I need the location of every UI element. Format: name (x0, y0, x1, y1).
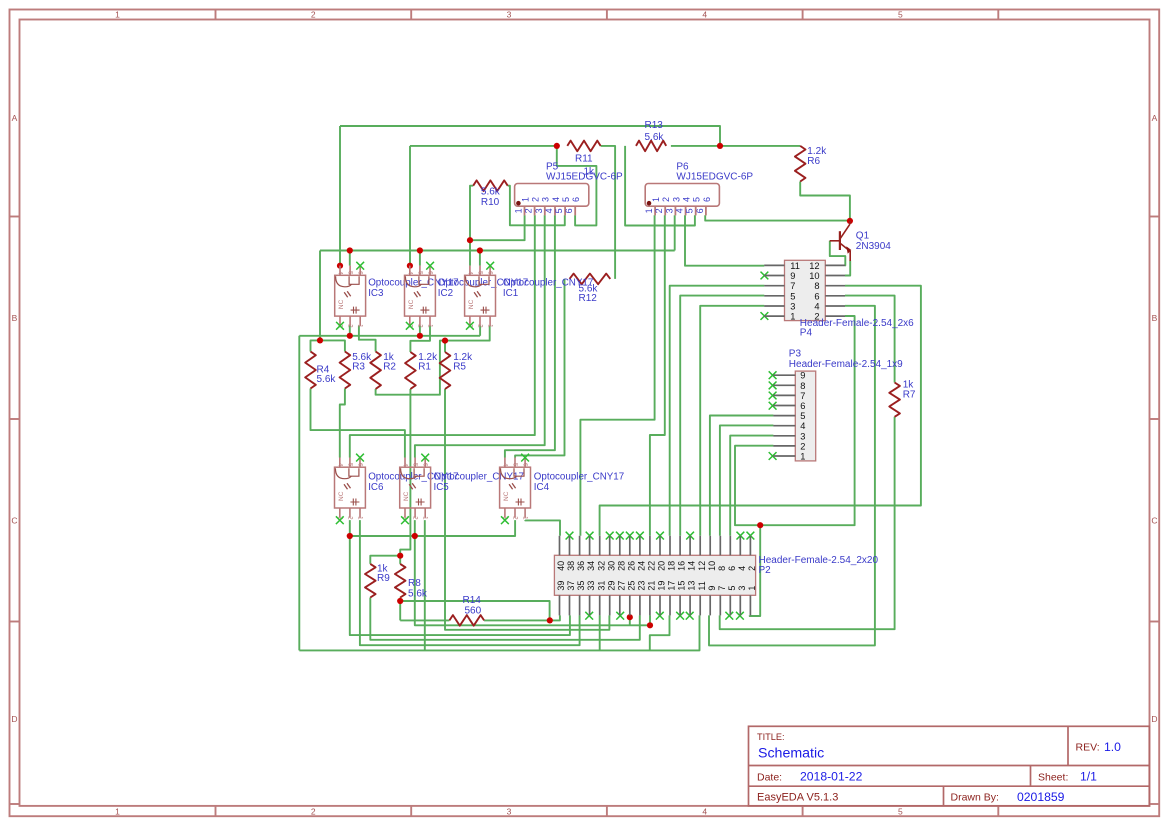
ruler ticks bottom (215, 806, 217, 816)
svg-text:IC6: IC6 (368, 482, 384, 493)
svg-text:2: 2 (747, 566, 757, 571)
svg-text:6: 6 (571, 197, 581, 202)
wire R6 bottom to Q1 collector (800, 182, 850, 221)
svg-text:TITLE:: TITLE: (757, 732, 785, 742)
wire R3 bottom to IC6 pin4 (340, 389, 345, 458)
wire R11 right lead down to R12 (601, 146, 616, 279)
nc P2 top pin30 (606, 532, 614, 540)
svg-text:37: 37 (566, 581, 576, 591)
svg-text:C: C (1151, 516, 1157, 526)
wire P4 pin7 to P2 pin18 (670, 286, 765, 536)
svg-text:5: 5 (898, 806, 903, 816)
wire IC2 pin1 to R1 (410, 326, 430, 353)
header P4 2x6 (764, 260, 845, 321)
resistor R7 (889, 379, 916, 417)
svg-text:Drawn By:: Drawn By: (951, 792, 999, 804)
svg-text:2: 2 (311, 806, 316, 816)
svg-text:1.0: 1.0 (1104, 740, 1121, 754)
resistor R12 (570, 274, 611, 305)
wire P4 pin6 to R7 top (845, 296, 895, 383)
svg-text:Optocoupler_CNY17: Optocoupler_CNY17 (434, 471, 524, 482)
junction IC2 pin2 (417, 333, 423, 339)
svg-text:Header-Female-2.54_2x20: Header-Female-2.54_2x20 (759, 555, 879, 566)
wire P2 pin39 riser (550, 615, 560, 620)
svg-text:4: 4 (800, 421, 805, 431)
svg-text:5: 5 (554, 208, 564, 213)
svg-text:9: 9 (707, 586, 717, 591)
svg-text:R13: R13 (645, 120, 664, 131)
svg-text:39: 39 (556, 581, 566, 591)
resistor R1 (405, 352, 438, 389)
svg-text:R14: R14 (463, 595, 482, 606)
resistor R2 (370, 352, 396, 390)
nc P2 bottom pin27 (616, 612, 624, 620)
junction P5pin1 R10 node (467, 237, 473, 243)
svg-text:D: D (11, 714, 17, 724)
nc P2 bottom pin5 (725, 612, 733, 620)
nc P3 pin8 (769, 382, 777, 390)
wire R8 bottom to R14 (399, 598, 401, 621)
wire R4 R3 top (311, 340, 345, 351)
svg-text:2: 2 (800, 441, 805, 451)
svg-text:11: 11 (697, 581, 707, 590)
svg-text:0201859: 0201859 (1017, 790, 1065, 804)
svg-text:20: 20 (657, 561, 667, 571)
wire net1 top horizontal (340, 126, 720, 146)
svg-text:38: 38 (566, 561, 576, 571)
svg-text:R12: R12 (579, 293, 598, 304)
svg-text:2: 2 (661, 197, 671, 202)
svg-text:5.6k: 5.6k (408, 588, 428, 599)
svg-text:32: 32 (596, 561, 606, 571)
svg-text:3: 3 (534, 208, 544, 213)
svg-text:14: 14 (687, 561, 697, 571)
header P3 1x9 (773, 371, 815, 462)
resistor R10 (473, 180, 508, 207)
svg-text:21: 21 (647, 581, 657, 591)
svg-text:16: 16 (677, 561, 687, 571)
svg-text:35: 35 (576, 581, 586, 591)
nc P2 top pin26 (626, 532, 634, 540)
junction R5 top (442, 338, 448, 344)
wire IC5 pin2 chain to P2 pin25 (415, 520, 650, 625)
wire P4 pin5 to P2 pin16 (680, 296, 764, 536)
nc IC4 pin3 (501, 516, 509, 524)
wire IC5 pin5 to P5 pin3 (415, 215, 545, 457)
svg-text:4: 4 (814, 302, 819, 312)
svg-text:3: 3 (800, 431, 805, 441)
junction IC3 pin2 (347, 333, 353, 339)
svg-text:NC: NC (503, 491, 510, 501)
nc IC6 pin3 (336, 516, 344, 524)
nc P2 top pin28 (616, 532, 624, 540)
svg-text:4: 4 (551, 197, 561, 202)
svg-text:12: 12 (809, 261, 819, 271)
svg-text:2: 2 (524, 208, 534, 213)
nc IC3 pin6 (356, 262, 364, 270)
nc P2 top pin2 (747, 532, 755, 540)
svg-text:9: 9 (800, 371, 805, 381)
svg-text:P2: P2 (759, 565, 772, 576)
svg-text:NC: NC (468, 299, 475, 309)
junction Q1 collector node (847, 218, 853, 224)
svg-text:33: 33 (586, 581, 596, 591)
svg-text:5: 5 (898, 10, 903, 20)
wire P3 pin3 to P2 pin6 (730, 436, 773, 536)
svg-text:25: 25 (626, 581, 636, 591)
wire IC6 pin5 to P5 pin2 (350, 215, 535, 457)
svg-text:19: 19 (657, 581, 667, 591)
svg-text:29: 29 (606, 581, 616, 591)
svg-text:IC1: IC1 (503, 288, 518, 299)
svg-text:3: 3 (671, 197, 681, 202)
wire IC3 pin1 to R2 (359, 326, 376, 352)
connector P6 (644, 184, 719, 216)
wire IC1 pin5 riser (479, 251, 481, 266)
wire P6 pin1 to P2 pin36 (580, 215, 654, 536)
svg-text:5: 5 (561, 197, 571, 202)
wire R8 top lead (399, 556, 401, 564)
svg-text:1: 1 (520, 197, 530, 202)
svg-text:31: 31 (596, 581, 606, 591)
svg-text:6: 6 (695, 208, 705, 213)
wire IC4 pin5 to R12 left (515, 279, 564, 458)
wire Q1 emitter to P4 pin10 (845, 261, 850, 276)
svg-text:R5: R5 (453, 362, 466, 373)
optocoupler IC5 (400, 458, 431, 521)
svg-text:23: 23 (637, 581, 647, 591)
wire R7 bottom to P2 pin7 (720, 417, 895, 629)
resistor R4 (305, 352, 336, 389)
junction bus536 IC5 (412, 533, 418, 539)
svg-text:5: 5 (800, 411, 805, 421)
svg-text:15: 15 (677, 581, 687, 591)
svg-text:Header-Female-2.54_1x9: Header-Female-2.54_1x9 (789, 359, 903, 370)
svg-text:3: 3 (737, 586, 747, 591)
svg-text:P4: P4 (800, 328, 813, 339)
nc P2 bottom pin19 (656, 612, 664, 620)
junction bus536 IC6 (347, 533, 353, 539)
wire R5 bottom chain to P2 pin29 (445, 389, 609, 630)
nc P2 bottom pin13 (686, 612, 694, 620)
wire P3 pin4 to P2 pin8 (720, 425, 774, 535)
svg-text:27: 27 (616, 581, 626, 591)
svg-text:R7: R7 (903, 389, 916, 400)
nc P2 top pin34 (586, 532, 594, 540)
wire IC1 pin1 R5 top net (376, 326, 490, 395)
ruler ticks right (1150, 216, 1160, 218)
svg-text:1/1: 1/1 (1080, 770, 1097, 784)
svg-text:R11: R11 (575, 154, 593, 165)
nc P2 bottom pin33 (585, 612, 593, 620)
optocoupler IC6 (335, 458, 366, 521)
svg-text:8: 8 (814, 281, 819, 291)
svg-text:1: 1 (651, 197, 661, 202)
resistor R5 (440, 352, 473, 389)
svg-text:D: D (1151, 714, 1157, 724)
wire R8 bottom right branch (400, 601, 549, 620)
svg-text:Date:: Date: (757, 771, 782, 783)
wire R4 bottom to IC5 pin4 (311, 389, 405, 458)
svg-text:6: 6 (727, 566, 737, 571)
svg-text:1: 1 (790, 312, 795, 322)
resistor R8 (395, 564, 428, 599)
nc P2 top pin14 (686, 532, 694, 540)
svg-text:R10: R10 (481, 197, 500, 208)
nc IC1 pin3 (466, 322, 474, 330)
svg-text:28: 28 (616, 561, 626, 571)
svg-text:26: 26 (626, 561, 636, 571)
resistor R3 (340, 352, 373, 389)
wire IC3 pin2 drop (349, 326, 351, 336)
svg-text:2018-01-22: 2018-01-22 (800, 770, 863, 784)
nc P2 top pin24 (636, 532, 644, 540)
nc IC4 pin6 (521, 454, 529, 462)
svg-text:2: 2 (531, 197, 541, 202)
junction R14 right (547, 617, 553, 623)
svg-text:11: 11 (790, 261, 800, 271)
wire bus y336 cathodes (299, 335, 480, 337)
wire P2 pin25 riser (629, 615, 631, 625)
optocoupler IC4 (500, 458, 531, 521)
resistor R6 (795, 146, 827, 182)
svg-text:6: 6 (814, 291, 819, 301)
wire R13 to R6 (671, 145, 800, 147)
wire bus y250 led anodes (320, 250, 675, 252)
wire P4 pin3 to P2 pin12 (700, 306, 764, 536)
svg-text:30: 30 (606, 561, 616, 571)
svg-text:R3: R3 (352, 362, 365, 373)
header P2 2x20 (554, 536, 757, 616)
svg-text:NC: NC (338, 491, 345, 501)
wire P2 pin31 riser (599, 615, 601, 650)
svg-text:4: 4 (675, 208, 685, 213)
svg-text:3: 3 (664, 208, 674, 213)
nc IC5 pin6 (421, 454, 429, 462)
connector P5 (514, 184, 589, 216)
svg-text:8: 8 (717, 566, 727, 571)
svg-text:3: 3 (507, 806, 512, 816)
junction R4R3 node (317, 337, 323, 343)
svg-text:8: 8 (800, 381, 805, 391)
nc P3 pin7 (769, 392, 777, 400)
wire R14 left lead (400, 619, 449, 621)
svg-text:IC4: IC4 (534, 482, 550, 493)
svg-text:4: 4 (682, 197, 692, 202)
svg-text:6: 6 (702, 197, 712, 202)
svg-text:WJ15EDGVC-6P: WJ15EDGVC-6P (676, 172, 753, 183)
svg-text:NC: NC (338, 299, 345, 309)
nc P2 bottom pin15 (676, 612, 684, 620)
junction R8 bottom (397, 598, 403, 604)
wire R1 bottom chain (400, 389, 410, 556)
ruler ticks top (215, 10, 217, 20)
wire R5 top lead (444, 341, 446, 352)
svg-text:B: B (1152, 313, 1158, 323)
svg-text:1: 1 (800, 452, 805, 462)
svg-text:9: 9 (790, 271, 795, 281)
nc P4 pin9 (761, 272, 769, 280)
svg-text:5.6k: 5.6k (317, 374, 337, 385)
svg-text:7: 7 (800, 391, 805, 401)
svg-text:5: 5 (685, 208, 695, 213)
junction IC3 pin4 (337, 263, 343, 269)
svg-text:13: 13 (687, 581, 697, 591)
wire IC2 pin2 drop (419, 326, 421, 336)
svg-text:40: 40 (556, 561, 566, 571)
wire IC4 pin1 to P2 pin40 (525, 520, 560, 536)
svg-text:EasyEDA V5.1.3: EasyEDA V5.1.3 (757, 792, 838, 804)
svg-text:18: 18 (667, 561, 677, 571)
svg-text:2: 2 (654, 208, 664, 213)
nc P2 top pin20 (656, 532, 664, 540)
svg-text:1: 1 (514, 208, 524, 213)
svg-text:IC3: IC3 (368, 288, 384, 299)
svg-text:IC2: IC2 (438, 288, 453, 299)
wire R9 top (370, 556, 400, 564)
svg-text:NC: NC (403, 491, 410, 501)
wire R13 left lead down (625, 146, 695, 226)
nc IC2 pin3 (406, 322, 414, 330)
resistor R14 (449, 595, 484, 626)
wire IC6 pin1 chain to P2 pin35 (360, 520, 580, 645)
svg-text:IC5: IC5 (434, 482, 450, 493)
svg-text:34: 34 (586, 561, 596, 571)
svg-text:WJ15EDGVC-6P: WJ15EDGVC-6P (546, 172, 623, 183)
svg-text:7: 7 (717, 586, 727, 591)
wire IC2 pin5 riser (419, 251, 421, 266)
junction IC2 pin5 (417, 247, 423, 253)
resistor R9 (365, 563, 390, 597)
wire bus y536 (350, 520, 515, 536)
svg-text:R6: R6 (807, 156, 820, 167)
svg-text:7: 7 (790, 281, 795, 291)
optocoupler IC3 (335, 266, 366, 329)
wire Q1 base to P4 pin12 (830, 241, 846, 266)
svg-text:Header-Female-2.54_2x6: Header-Female-2.54_2x6 (800, 318, 914, 329)
wire left long vertical (298, 336, 300, 651)
svg-text:22: 22 (647, 561, 657, 571)
svg-text:1: 1 (115, 806, 120, 816)
nc IC5 pin3 (401, 516, 409, 524)
wire P6 pin2 to P2 pin22 (650, 215, 665, 536)
svg-text:4: 4 (702, 10, 707, 20)
wire P5 pin6 to R11 junction (557, 146, 597, 226)
junction IC2 pin4 (407, 263, 413, 269)
svg-text:560: 560 (465, 605, 482, 616)
svg-text:6: 6 (800, 401, 805, 411)
nc IC1 pin6 (486, 262, 494, 270)
svg-text:2: 2 (311, 10, 316, 20)
wire IC3 pin5 riser (349, 251, 351, 266)
ruler ticks left (10, 216, 20, 218)
junction IC1 pin5 (477, 247, 483, 253)
svg-text:R1: R1 (418, 362, 431, 373)
junction pin21 bus (647, 622, 653, 628)
optocoupler IC1 (465, 266, 496, 329)
nc P3 pin9 (769, 371, 777, 379)
svg-text:Optocoupler_CNY17: Optocoupler_CNY17 (534, 471, 624, 482)
wire P4 pin8 to P2 pin32 (600, 286, 921, 536)
svg-text:1: 1 (115, 10, 120, 20)
svg-text:3: 3 (507, 10, 512, 20)
svg-text:A: A (12, 113, 18, 123)
svg-text:B: B (12, 313, 18, 323)
junction IC3 pin5 (347, 247, 353, 253)
svg-text:5: 5 (790, 291, 795, 301)
nc P4 pin1 (761, 312, 769, 320)
wire IC6 pin2 chain to P2 pin37 (350, 520, 570, 635)
svg-text:Schematic: Schematic (758, 746, 824, 762)
nc P2 bottom pin3 (736, 612, 744, 620)
wire P6 pin6 to collector node (705, 215, 850, 220)
wire R14 right lead (484, 619, 550, 621)
svg-text:R2: R2 (383, 362, 396, 373)
svg-text:12: 12 (697, 561, 707, 571)
resistor R13 (636, 120, 666, 151)
wire R10 left to P5 pin1 and IC1 pin4 (470, 186, 473, 266)
svg-text:Optocoupler_CNY17: Optocoupler_CNY17 (503, 278, 593, 289)
svg-text:3: 3 (790, 302, 795, 312)
nc IC2 pin6 (426, 262, 434, 270)
svg-text:4: 4 (544, 208, 554, 213)
svg-text:5: 5 (692, 197, 702, 202)
wire P3 pin5 to P2 pin10 (710, 416, 774, 536)
svg-text:1: 1 (644, 208, 654, 213)
wire bus left drop to R4 R3 (319, 251, 321, 341)
wire P5 pin1 branch (470, 215, 525, 240)
wire P2 pin17 step (650, 615, 670, 650)
wire P6 pin4 to P4 pin11 (685, 215, 764, 265)
svg-text:4: 4 (737, 566, 747, 571)
nc P3 pin1 (769, 452, 777, 460)
svg-text:5.6k: 5.6k (645, 132, 665, 143)
svg-text:6: 6 (564, 208, 574, 213)
nc P2 top pin4 (737, 532, 745, 540)
title block (749, 726, 1150, 806)
resistor R11 (567, 141, 600, 178)
wire P6 pin3 drop (674, 215, 676, 250)
wire P3 pin2 long net (735, 316, 855, 525)
wire bottom bus to P2 pin11 (299, 615, 699, 650)
nc P3 pin6 (769, 402, 777, 410)
junction R9 R8 top (397, 553, 403, 559)
wire net2 horizontal y146 (410, 145, 557, 147)
svg-text:NC: NC (408, 299, 415, 309)
nc P2 top pin38 (566, 532, 574, 540)
wire IC2 pin4 drop (409, 146, 411, 266)
svg-text:R9: R9 (377, 573, 390, 584)
junction R11 left node (554, 143, 560, 149)
wire R10 right to P5 pin5 (508, 186, 565, 226)
nc IC6 pin6 (356, 454, 364, 462)
svg-text:10: 10 (809, 271, 819, 281)
svg-text:4: 4 (702, 806, 707, 816)
svg-text:C: C (11, 516, 17, 526)
wire IC3 pin4 drop (339, 126, 341, 266)
svg-text:2N3904: 2N3904 (856, 241, 891, 252)
nc IC3 pin3 (336, 322, 344, 330)
optocoupler IC2 (405, 266, 436, 329)
svg-text:Sheet:: Sheet: (1038, 771, 1068, 783)
svg-text:24: 24 (637, 561, 647, 571)
svg-text:Q1: Q1 (856, 230, 870, 241)
junction P3pin2 net riser (757, 522, 763, 528)
svg-text:10: 10 (707, 561, 717, 571)
svg-text:5: 5 (727, 586, 737, 591)
wire P4 pin4 to P2 pin9 (709, 306, 875, 646)
svg-text:A: A (1152, 113, 1158, 123)
